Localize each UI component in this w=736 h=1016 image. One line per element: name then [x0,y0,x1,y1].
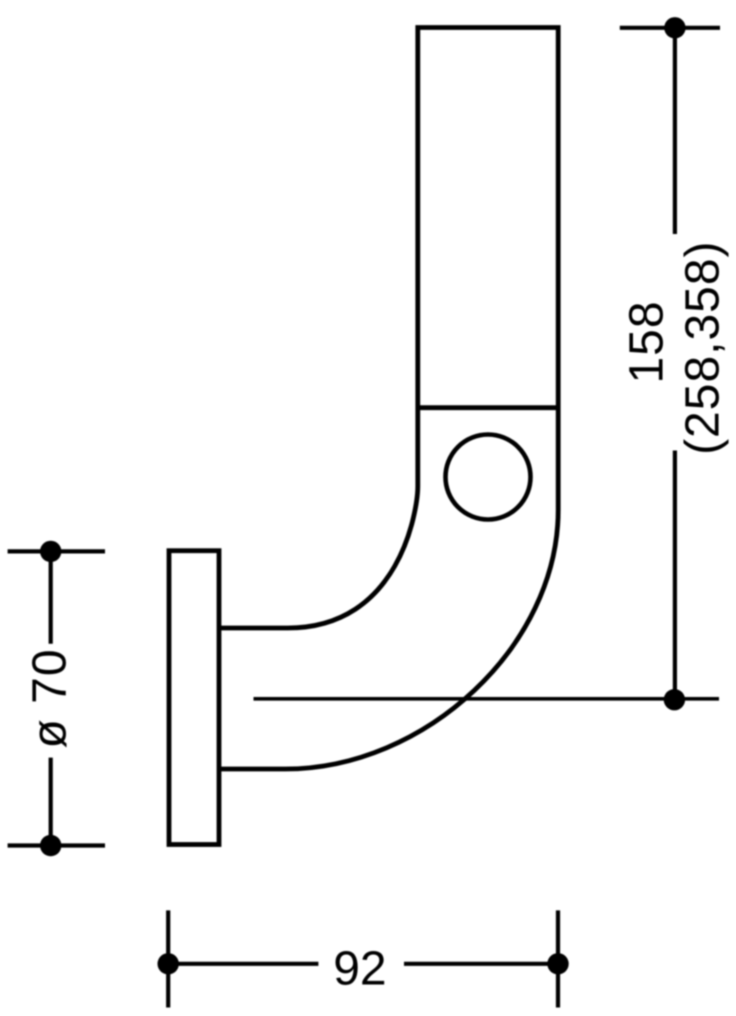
left dim: vertical line upper segment [49,551,53,643]
right dim: bottom dot [664,689,685,710]
svg-text:ø 70: ø 70 [24,648,77,748]
left dim: vertical line lower segment [49,758,53,846]
right dim: vertical line lower segment [673,451,677,700]
left dim: bottom tick [8,843,105,847]
bottom dim: right tick [556,910,560,1007]
bottom dim: right dot [547,953,568,974]
bottom dim: line left segment [168,962,318,966]
roller hole circle [446,435,531,520]
bottom dim: left dot [158,953,179,974]
svg-text:158: 158 [621,300,674,383]
wall plate (side view rectangle) [169,551,219,845]
extension line from plate centre to right dim [254,697,720,701]
right dim: top dot [664,17,685,38]
left dim: top dot [40,541,61,562]
right dim: vertical line upper segment [673,28,677,234]
right dim: top tick [620,26,720,30]
svg-text:(258,358): (258,358) [677,240,730,454]
left dim: bottom dot [40,835,61,856]
tube body: left edge + top + right edge [418,28,558,511]
outer elbow curve + arm bottom edge [219,510,558,769]
bottom dim: line right segment [404,962,558,966]
bottom dim: left tick [166,910,170,1007]
divider line in tube [418,405,558,410]
left dim: top tick [8,549,105,553]
inner elbow curve + arm top edge [219,486,418,628]
svg-text:92: 92 [333,943,386,996]
